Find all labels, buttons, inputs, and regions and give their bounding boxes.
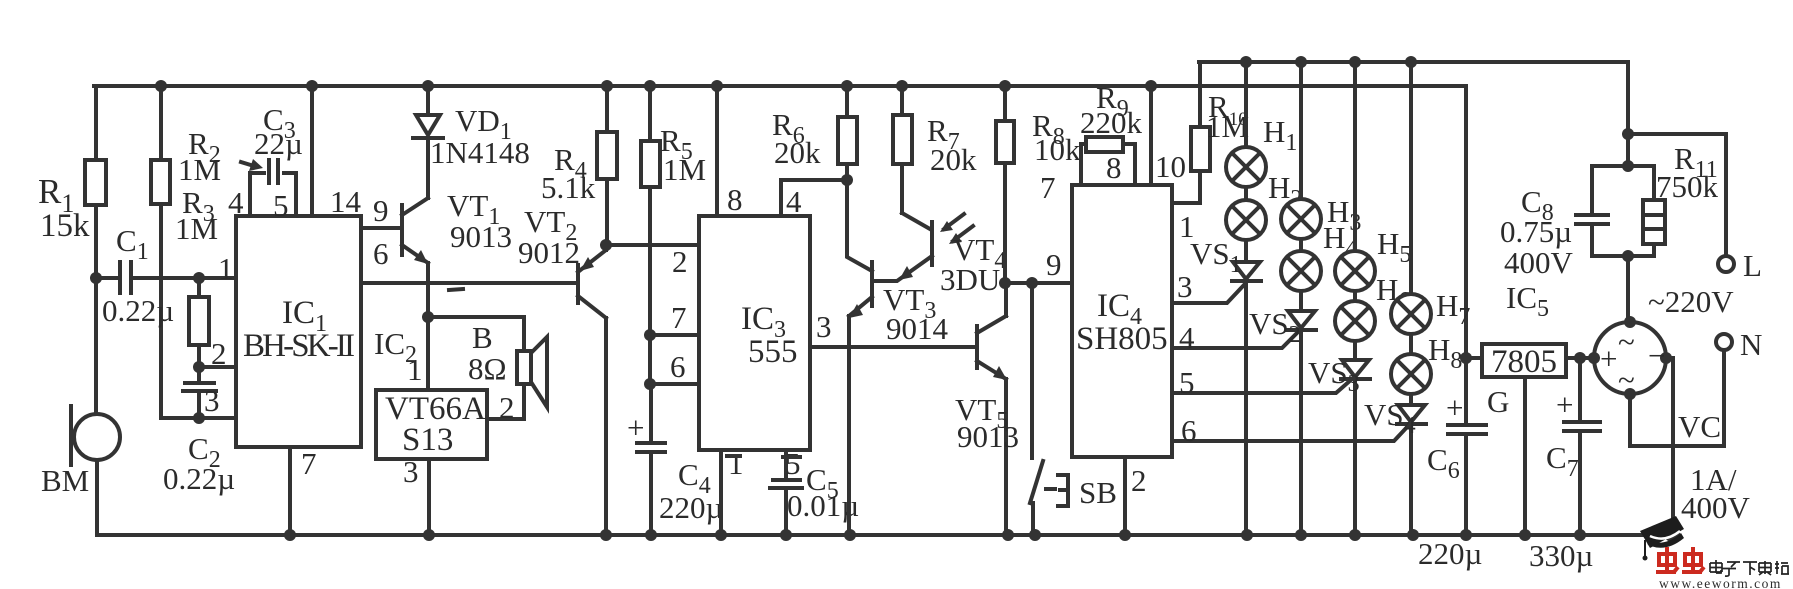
- svg-text:1: 1: [218, 251, 234, 286]
- node: top rail junction IC3 pin8: [711, 80, 723, 92]
- diode VD1 1N4148: [413, 86, 530, 198]
- thyristor VS3: [1308, 341, 1370, 535]
- svg-text:+: +: [627, 410, 644, 445]
- wire: IC1 pin2 stub: [199, 365, 236, 369]
- svg-text:0.22µ: 0.22µ: [163, 461, 235, 496]
- transistor VT2 9012: [518, 204, 606, 535]
- wire: junction to IC3 pin2: [606, 243, 699, 247]
- node: C8 loop bottom junction: [1622, 250, 1634, 262]
- wire: IC2 pin1 stub: [426, 317, 430, 390]
- thyristor VS1: [1190, 236, 1261, 535]
- svg-text:5.1k: 5.1k: [541, 170, 596, 205]
- wire: IC3 pin8 stub: [715, 86, 719, 216]
- svg-text:4: 4: [1179, 320, 1195, 355]
- svg-text:9: 9: [1046, 247, 1062, 282]
- svg-text:3: 3: [1177, 269, 1193, 304]
- wire: junction to speaker: [428, 317, 524, 351]
- node: IC3 pin7 junction: [644, 329, 656, 341]
- node: ground rail junction SB: [1029, 529, 1041, 541]
- resistor R6: [772, 86, 857, 180]
- node: top rail junction R6: [841, 80, 853, 92]
- wire: top supply rail: [94, 86, 1466, 358]
- svg-text:5: 5: [273, 188, 289, 223]
- transistor VT1 9013: [402, 188, 512, 317]
- terminal N: [1716, 327, 1762, 362]
- wire: IC2 pin3 to ground: [427, 459, 431, 535]
- svg-text:9014: 9014: [886, 311, 949, 346]
- svg-text:4: 4: [228, 185, 244, 220]
- node: top rail junction R8: [999, 80, 1011, 92]
- svg-text:2: 2: [672, 244, 688, 279]
- lamp H8: [1391, 332, 1462, 394]
- resistor R4: [541, 86, 617, 245]
- resistor R5: [641, 86, 706, 335]
- node: ground rail junction VS3: [1349, 529, 1361, 541]
- svg-text:6: 6: [373, 236, 389, 271]
- thyristor VS4: [1364, 394, 1426, 535]
- capacitor C7: [1529, 358, 1600, 573]
- svg-text:+: +: [1556, 387, 1573, 422]
- wire: IC1 pin6 to VT2 base: [361, 281, 575, 285]
- wire: IC4 pin4 to VS2 gate: [1172, 332, 1298, 348]
- wire: R5 to pin6 junction: [648, 335, 652, 384]
- node: ground rail junction IC1 pin7: [284, 529, 296, 541]
- node: C8 loop top junction: [1622, 160, 1634, 172]
- wire: IC4 pin3 to VS1 gate: [1172, 285, 1244, 303]
- node: R4 VT2 emitter IC3 pin2 junction: [600, 239, 612, 251]
- node: ground rail junction C5: [780, 529, 792, 541]
- IC U2: VT66A S13 module: [376, 390, 487, 459]
- svg-text:4: 4: [786, 184, 802, 219]
- lamp H1: [1226, 62, 1297, 187]
- svg-text:0.22µ: 0.22µ: [102, 293, 174, 328]
- wire: IC1 pin14 stub: [310, 86, 314, 216]
- node: lamp rail junction H1 chain: [1240, 56, 1252, 68]
- svg-text:15k: 15k: [40, 208, 90, 244]
- terminal L: [1718, 248, 1762, 283]
- svg-text:400V: 400V: [1504, 245, 1574, 280]
- svg-text:10: 10: [1155, 149, 1186, 184]
- svg-text:S13: S13: [402, 422, 453, 458]
- wire: IC3 pin5 stub: [784, 450, 788, 478]
- wire: IC1 pin9 to VT1 base: [361, 226, 400, 230]
- node: ground rail junction C4: [645, 529, 657, 541]
- svg-text:8: 8: [1106, 150, 1122, 185]
- svg-text:1M: 1M: [1206, 109, 1249, 144]
- svg-text:VC: VC: [1678, 409, 1721, 444]
- wire: bottom ground rail: [97, 533, 1674, 537]
- node: ground rail junction VT5 emitter: [1002, 529, 1014, 541]
- node: lamp rail junction H3 chain: [1295, 56, 1307, 68]
- svg-text:9012: 9012: [518, 235, 580, 270]
- node: SB branch junction: [1026, 277, 1038, 289]
- watermark black site name: [1710, 560, 1789, 576]
- svg-text:0.75µ: 0.75µ: [1500, 214, 1572, 249]
- node: top rail junction R5: [644, 80, 656, 92]
- resistor R1: [38, 86, 106, 278]
- svg-text:~220V: ~220V: [1648, 284, 1734, 319]
- svg-text:+: +: [1446, 390, 1463, 425]
- bridge rectifier VC: [1588, 316, 1751, 525]
- wire: IC4 pin6 to VS4 gate: [1172, 425, 1409, 441]
- svg-text:220µ: 220µ: [1418, 536, 1482, 571]
- transistor VT3 9014: [849, 262, 949, 535]
- svg-text:6: 6: [1181, 413, 1197, 448]
- IC U3: IC3 555 timer: [699, 216, 810, 450]
- lamp H3: [1281, 62, 1361, 239]
- node: IC1 pin2 junction: [193, 361, 205, 373]
- node: top rail junction R2: [155, 80, 167, 92]
- node: ground rail junction IC5 ground: [1519, 529, 1531, 541]
- resistor R8: [996, 86, 1081, 283]
- svg-text:N: N: [1740, 327, 1762, 362]
- svg-text:1N4148: 1N4148: [430, 135, 530, 170]
- wire: junction to 7805 input: [1466, 356, 1482, 360]
- node: lamp rail junction H7 chain: [1405, 56, 1417, 68]
- svg-text:20k: 20k: [774, 135, 821, 170]
- node: IC1 pin3 junction: [193, 412, 205, 424]
- node: top rail junction IC4 pin10: [1145, 80, 1157, 92]
- svg-text:220k: 220k: [1080, 105, 1143, 140]
- wire: 7805 output to bridge plus: [1566, 356, 1596, 360]
- svg-text:G: G: [1487, 384, 1509, 419]
- IC U5: 7805 regulator: [1482, 280, 1566, 419]
- svg-text:−: −: [1648, 338, 1665, 373]
- wire: pin6 stub: [650, 382, 699, 386]
- node: top rail junction R4: [601, 80, 613, 92]
- resistor R9 over pin8: [1080, 80, 1143, 185]
- svg-text:5: 5: [785, 446, 801, 481]
- svg-text:1M: 1M: [178, 152, 221, 187]
- wire: IC4 pin10 stub: [1149, 86, 1153, 185]
- wire: bridge bottom AC to N: [1630, 350, 1724, 446]
- svg-text:8: 8: [727, 182, 743, 217]
- svg-text:7805: 7805: [1491, 344, 1557, 380]
- resistor R7: [893, 86, 977, 213]
- lamp H7: [1391, 62, 1470, 334]
- svg-text:6: 6: [670, 349, 686, 384]
- wire: IC4 pin2 to ground: [1123, 457, 1127, 535]
- svg-text:3: 3: [204, 383, 220, 418]
- wire: junction to IC4 pin9: [1005, 281, 1072, 285]
- svg-text:BH-SK-II: BH-SK-II: [243, 328, 355, 364]
- svg-text:10k: 10k: [1034, 132, 1081, 167]
- lamp H4: [1281, 220, 1357, 291]
- microphone BM: [41, 278, 120, 535]
- node: ground rail junction IC2 pin3: [423, 529, 435, 541]
- capacitor C2: [163, 367, 235, 496]
- svg-text:14: 14: [330, 184, 362, 219]
- svg-text:www.eeworm.com: www.eeworm.com: [1659, 576, 1782, 589]
- node: ground rail end junction bridge minus: [1664, 526, 1680, 542]
- node: ground rail junction VT2 collector: [600, 529, 612, 541]
- node: R6 pin4 junction: [841, 174, 853, 186]
- node: R8 VT5 collector junction: [999, 277, 1011, 289]
- svg-text:~: ~: [1618, 362, 1635, 397]
- svg-text:~: ~: [1618, 324, 1635, 359]
- svg-text:330µ: 330µ: [1529, 538, 1593, 573]
- node: IC3 pin6 junction: [644, 378, 656, 390]
- speaker B 8ohm: [468, 320, 547, 419]
- svg-text:9: 9: [373, 193, 389, 228]
- node: pin1 net junction: [90, 272, 102, 284]
- wire: vertical to C8 loop: [1626, 134, 1630, 166]
- svg-text:400V: 400V: [1681, 490, 1751, 525]
- wire: stray dash mark: [449, 289, 463, 290]
- svg-text:B: B: [472, 320, 493, 355]
- wire: IC4 pin5 to VS3 gate: [1172, 379, 1352, 393]
- watermark red text chongchong: [1656, 547, 1704, 572]
- svg-text:+: +: [1600, 341, 1617, 376]
- thyristor VS2: [1249, 291, 1316, 535]
- svg-text:BM: BM: [41, 463, 89, 498]
- lamp H6: [1335, 272, 1410, 341]
- capacitor C1: [96, 223, 236, 328]
- svg-text:7: 7: [301, 446, 317, 481]
- capacitor C4: [627, 384, 723, 535]
- svg-text:3: 3: [816, 309, 832, 344]
- node: ground rail junction IC4 pin2: [1119, 529, 1131, 541]
- node: C7 junction: [1574, 352, 1586, 364]
- watermark graduation cap: [1640, 516, 1684, 561]
- svg-text:7: 7: [671, 300, 687, 335]
- svg-text:22µ: 22µ: [254, 126, 303, 161]
- svg-text:3DU: 3DU: [940, 262, 1000, 297]
- node: ground rail junction C7: [1574, 529, 1586, 541]
- node: ground rail junction C6: [1460, 529, 1472, 541]
- node: ground rail junction VS2: [1295, 529, 1307, 541]
- svg-text:1: 1: [728, 446, 744, 481]
- node: ground rail junction VS1: [1241, 529, 1253, 541]
- capacitor C3: [241, 102, 303, 216]
- svg-text:1M: 1M: [663, 152, 706, 187]
- wire: IC3 pin1 to ground: [719, 450, 723, 535]
- svg-text:2: 2: [499, 390, 515, 425]
- resistor R2: [151, 86, 236, 418]
- svg-text:3: 3: [403, 454, 419, 489]
- phototransistor VT4 3DU: [872, 213, 1006, 297]
- node: R3 top junction: [193, 272, 205, 284]
- resistor R11: [1628, 141, 1719, 256]
- svg-text:555: 555: [748, 334, 798, 370]
- wire: pin7 stub: [650, 333, 699, 337]
- wire: R6 junction to VT3 collector: [847, 180, 872, 271]
- wire: bridge minus to ground rail: [1666, 358, 1673, 535]
- svg-text:SB: SB: [1079, 475, 1117, 510]
- resistor R10: [1172, 62, 1249, 203]
- capacitor C5: [770, 462, 859, 535]
- svg-text:8Ω: 8Ω: [468, 351, 507, 386]
- resistor R3: [175, 185, 218, 367]
- node: VT1 emitter junction: [422, 311, 434, 323]
- wire: 7805 ground pin: [1523, 377, 1527, 535]
- svg-text:7: 7: [1040, 170, 1056, 205]
- node: top rail junction IC1 pin14: [306, 80, 318, 92]
- node: L branch junction: [1622, 128, 1634, 140]
- svg-text:1M: 1M: [175, 211, 218, 246]
- capacitor C8: [1500, 166, 1628, 280]
- switch SB push-button: [1030, 283, 1117, 535]
- svg-text:9013: 9013: [957, 419, 1019, 454]
- svg-text:2: 2: [211, 336, 227, 371]
- wire: IC3 pin3 to VT5 base: [810, 345, 975, 349]
- wire: lamp supply rail: [1199, 62, 1628, 134]
- wire: branch to terminal L: [1628, 134, 1726, 256]
- wire: IC1 pin7 to ground: [288, 447, 292, 535]
- lamp H5: [1335, 62, 1411, 291]
- svg-text:220µ: 220µ: [659, 490, 723, 525]
- capacitor C6: [1418, 358, 1486, 571]
- node: ground rail junction VT3 emitter: [844, 529, 856, 541]
- IC U1: IC1 BH-SK-II: [236, 216, 361, 447]
- svg-text:L: L: [1743, 248, 1762, 283]
- svg-text:SH805: SH805: [1076, 321, 1168, 357]
- node: top rail junction VD1: [422, 80, 434, 92]
- node: ground rail junction VS4: [1407, 529, 1419, 541]
- node: ground rail junction IC3 pin1: [715, 529, 727, 541]
- node: H8 / 7805 input junction: [1460, 352, 1472, 364]
- svg-text:5: 5: [1179, 365, 1195, 400]
- wire: IC3 pin4 to R6: [781, 180, 847, 216]
- node: lamp rail junction H5 chain: [1349, 56, 1361, 68]
- wire: loop bottom to bridge top: [1626, 256, 1630, 322]
- svg-text:2: 2: [1131, 463, 1147, 498]
- lamp H2: [1226, 170, 1302, 240]
- transistor VT5 9013: [955, 283, 1019, 535]
- node: top rail junction R7: [896, 80, 908, 92]
- svg-text:20k: 20k: [930, 142, 977, 177]
- svg-text:750k: 750k: [1656, 169, 1719, 204]
- IC U4: IC4 SH805: [1072, 185, 1172, 457]
- svg-text:9013: 9013: [450, 219, 512, 254]
